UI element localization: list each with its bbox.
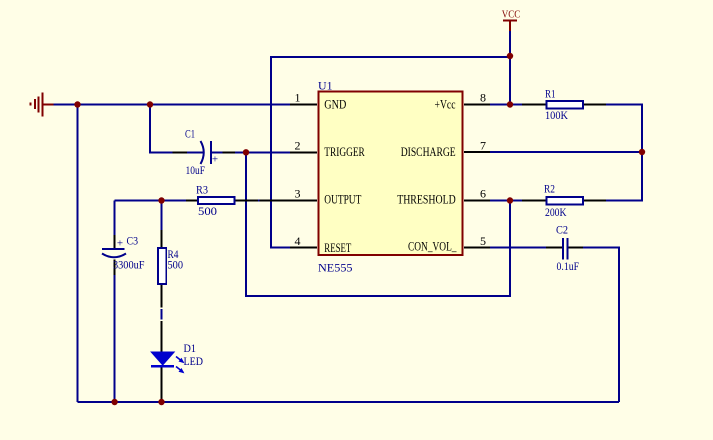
resistor R1 [545, 89, 583, 123]
LED D1 [151, 343, 203, 373]
resistor R2 [544, 184, 583, 220]
svg-text:500: 500 [168, 260, 184, 272]
wire pin7 to node [490, 151, 642, 153]
svg-text:+: + [117, 238, 123, 250]
ground [31, 93, 54, 117]
wire left column down [77, 105, 79, 403]
IC pin 3 stub [290, 200, 317, 202]
wire ground to pin1 [53, 104, 290, 106]
svg-text:U1: U1 [318, 79, 333, 93]
junction pin2 node [243, 149, 249, 155]
junction C3 bottom [111, 399, 117, 405]
resistor R3 [196, 185, 235, 219]
IC pin 6 stub [464, 200, 490, 202]
junction pin8 node [507, 101, 513, 107]
svg-text:+Vcc: +Vcc [435, 96, 456, 111]
svg-text:RESET: RESET [324, 240, 351, 255]
wire output R3 line [115, 200, 198, 202]
wire pin8 to R1 [490, 104, 547, 106]
svg-text:C3: C3 [127, 236, 139, 248]
svg-text:TRIGGER: TRIGGER [324, 144, 365, 159]
wire R1 right down to pin7 node [583, 105, 642, 201]
svg-text:THRESHOLD: THRESHOLD [397, 192, 456, 207]
svg-text:10uF: 10uF [186, 165, 206, 177]
svg-text:C1: C1 [185, 129, 195, 141]
op-amp U1 NE555 body [319, 92, 463, 256]
junction ground left column [74, 101, 80, 107]
svg-text:R2: R2 [544, 184, 555, 196]
svg-text:1: 1 [295, 91, 301, 105]
IC pin 1 stub [290, 104, 317, 106]
wire R4 LED column [161, 201, 163, 231]
junction pin6 node [507, 197, 513, 203]
wire C1 drop from top rail [150, 105, 204, 153]
svg-text:5: 5 [480, 234, 486, 248]
svg-text:3300uF: 3300uF [113, 260, 145, 272]
svg-text:2: 2 [295, 139, 301, 153]
svg-text:+: + [212, 154, 218, 166]
power port VCC [502, 9, 521, 32]
svg-text:VCC: VCC [502, 9, 521, 21]
capacitor C2 [556, 225, 579, 274]
wire trigger-threshold tie [246, 152, 510, 296]
wire vcc vertical [509, 31, 511, 105]
IC pin 2 stub [290, 151, 317, 153]
junction pin7 node [639, 149, 645, 155]
svg-text:DISCHARGE: DISCHARGE [401, 144, 456, 159]
svg-text:LED: LED [184, 356, 204, 368]
svg-text:4: 4 [295, 234, 301, 248]
IC pin 7 stub [464, 151, 490, 153]
svg-text:C2: C2 [556, 225, 568, 237]
svg-text:OUTPUT: OUTPUT [324, 192, 361, 207]
svg-text:CON_VOL_: CON_VOL_ [408, 239, 457, 254]
wire C3 column [114, 201, 116, 236]
IC pin 8 stub [464, 104, 490, 106]
resistor R4 [158, 248, 183, 284]
junction LED bottom [158, 399, 164, 405]
wire C1 to pin2 [211, 151, 290, 153]
svg-text:500: 500 [198, 206, 217, 218]
svg-text:7: 7 [480, 139, 486, 153]
wire pin5 to C2 [490, 247, 563, 249]
IC pin 5 stub [464, 247, 490, 249]
svg-text:NE555: NE555 [318, 261, 353, 275]
svg-text:D1: D1 [184, 343, 197, 355]
svg-text:100K: 100K [545, 110, 569, 122]
svg-text:200K: 200K [545, 207, 567, 219]
capacitor C1 [185, 129, 218, 178]
wire C2 right down to bottom rail [568, 247, 583, 249]
wire pin6 to R2 [490, 200, 547, 202]
svg-text:6: 6 [480, 187, 486, 201]
svg-text:R1: R1 [545, 89, 556, 101]
svg-text:R3: R3 [196, 185, 208, 197]
capacitor C3 [102, 236, 145, 272]
svg-text:3: 3 [295, 187, 301, 201]
junction R4 top node [158, 197, 164, 203]
IC pin 4 stub [290, 247, 317, 249]
wire reset to vcc top rail [271, 57, 510, 248]
svg-text:0.1uF: 0.1uF [557, 261, 580, 273]
junction VCC top rail [507, 53, 513, 59]
svg-text:8: 8 [480, 91, 486, 105]
wire bottom rail [78, 401, 620, 403]
junction C1 drop [147, 101, 153, 107]
svg-text:GND: GND [324, 96, 346, 111]
